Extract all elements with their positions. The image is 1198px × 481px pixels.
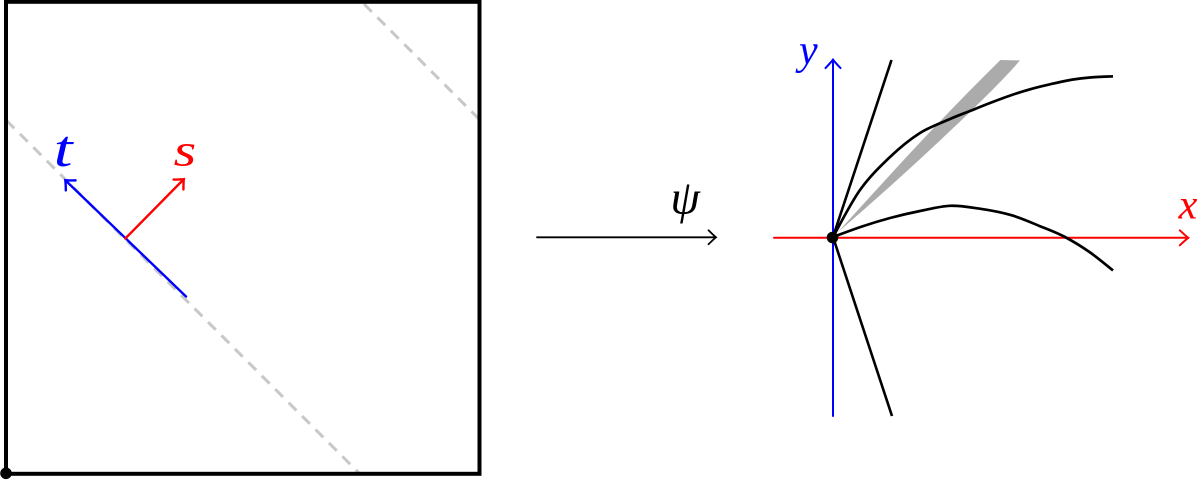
svg-text:ψ: ψ bbox=[670, 173, 701, 225]
svg-text:y: y bbox=[795, 28, 818, 74]
svg-text:s: s bbox=[174, 125, 197, 176]
svg-text:t: t bbox=[54, 120, 74, 178]
svg-text:x: x bbox=[1178, 183, 1198, 229]
